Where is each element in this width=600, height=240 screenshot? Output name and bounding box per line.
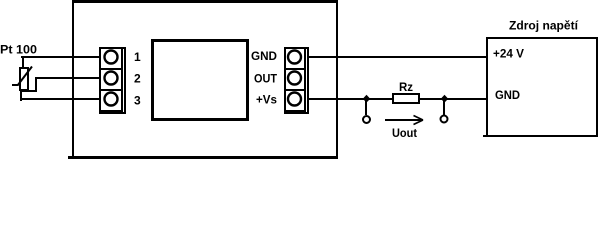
svg-text:+Vs: +Vs bbox=[256, 93, 277, 107]
resistor Rz bbox=[392, 93, 420, 104]
svg-text:3: 3 bbox=[134, 94, 141, 108]
terminal 1 circle bbox=[105, 51, 118, 64]
Pt100 temperature-dependence diagonal stroke bbox=[12, 67, 32, 87]
wire: stub down from node A bbox=[365, 99, 367, 115]
svg-text:2: 2 bbox=[134, 72, 141, 86]
svg-text:1: 1 bbox=[134, 50, 141, 64]
wire: row2 terminal 2 lead bbox=[35, 77, 99, 79]
measurement terminal (left, open circle) bbox=[363, 116, 370, 123]
wire: row1 Pt100 top lead to terminal 1 bbox=[21, 56, 99, 58]
Uout arrow bbox=[385, 116, 423, 125]
svg-text:Rz: Rz bbox=[399, 80, 413, 94]
resistor Pt100 (RTD sensor) bbox=[19, 57, 29, 101]
terminal GND circle bbox=[288, 51, 301, 64]
wire: row2 horizontal to Pt100 bottom lead bbox=[21, 90, 37, 92]
measurement terminal (right, open circle) bbox=[441, 116, 448, 123]
power supply box (Zdroj napeti) bbox=[483, 37, 598, 137]
wire: row3 Pt100 bottom to terminal 3 bbox=[20, 98, 99, 100]
svg-text:GND: GND bbox=[495, 88, 520, 102]
terminal block J2 (right, GND/OUT/+Vs) bbox=[284, 47, 309, 114]
svg-text:Zdroj napětí: Zdroj napětí bbox=[509, 19, 579, 33]
wire: stub down from node B bbox=[443, 99, 445, 115]
inner module rectangle bbox=[151, 39, 249, 121]
terminal block J1 (left, pins 1-3) bbox=[99, 47, 126, 114]
wire: GND terminal to +24V supply bbox=[309, 56, 486, 58]
terminal 2 circle bbox=[105, 72, 118, 85]
svg-text:GND: GND bbox=[251, 49, 277, 63]
svg-text:+24 V: +24 V bbox=[493, 47, 524, 61]
junction node B bbox=[441, 95, 448, 103]
svg-text:Uout: Uout bbox=[392, 126, 417, 140]
junction node A bbox=[363, 95, 370, 103]
wire: row2 vertical jog down bbox=[35, 77, 37, 92]
terminal OUT circle bbox=[288, 72, 301, 85]
transmitter module outer box U1 bbox=[68, 0, 338, 159]
terminal 3 circle bbox=[105, 93, 118, 106]
wire: +Vs terminal through Rz to supply GND bbox=[309, 98, 486, 100]
terminal +Vs circle bbox=[288, 93, 301, 106]
svg-text:OUT: OUT bbox=[254, 72, 278, 86]
svg-text:Pt 100: Pt 100 bbox=[0, 43, 37, 57]
